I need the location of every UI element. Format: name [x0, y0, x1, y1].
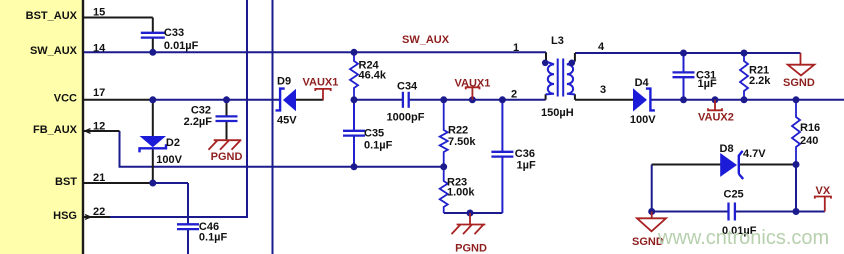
svg-text:D2: D2 [166, 137, 180, 149]
svg-text:240: 240 [800, 135, 818, 147]
svg-text:C34: C34 [397, 81, 418, 93]
svg-text:C25: C25 [724, 189, 744, 201]
svg-text:C36: C36 [515, 148, 535, 160]
svg-text:7.50k: 7.50k [448, 136, 476, 148]
svg-text:1.00k: 1.00k [447, 187, 475, 199]
svg-text:1µF: 1µF [517, 160, 536, 172]
svg-text:0.1µF: 0.1µF [199, 232, 228, 244]
svg-text:150µH: 150µH [541, 107, 574, 119]
svg-text:VX: VX [816, 185, 831, 197]
svg-text:D4: D4 [635, 77, 650, 89]
svg-text:L3: L3 [551, 35, 564, 47]
svg-text:PGND: PGND [211, 151, 243, 163]
svg-text:0.1µF: 0.1µF [364, 140, 393, 152]
svg-text:100V: 100V [156, 154, 182, 166]
svg-text:VAUX1: VAUX1 [303, 77, 339, 89]
svg-text:2: 2 [511, 89, 517, 101]
svg-text:2.2k: 2.2k [749, 75, 771, 87]
svg-text:0.01µF: 0.01µF [164, 40, 199, 52]
svg-text:2.2µF: 2.2µF [184, 116, 213, 128]
svg-text:VAUX2: VAUX2 [698, 112, 734, 124]
svg-text:22: 22 [93, 206, 105, 218]
svg-text:C33: C33 [164, 27, 184, 39]
svg-text:C32: C32 [191, 105, 211, 117]
svg-text:HSG: HSG [53, 210, 77, 222]
svg-text:15: 15 [93, 7, 105, 19]
svg-text:SGND: SGND [783, 77, 815, 89]
svg-text:SW_AUX: SW_AUX [402, 34, 450, 46]
svg-text:BST_AUX: BST_AUX [26, 10, 78, 22]
svg-text:46.4k: 46.4k [359, 70, 387, 82]
svg-text:VCC: VCC [54, 92, 77, 104]
svg-text:3: 3 [600, 84, 606, 96]
svg-text:D8: D8 [720, 143, 734, 155]
svg-text:1000pF: 1000pF [387, 112, 425, 124]
svg-text:45V: 45V [277, 115, 297, 127]
svg-text:14: 14 [93, 42, 106, 54]
svg-text:12: 12 [93, 121, 105, 133]
svg-text:SW_AUX: SW_AUX [30, 45, 78, 57]
svg-text:R22: R22 [448, 125, 468, 137]
svg-text:VAUX1: VAUX1 [455, 78, 491, 90]
svg-text:D9: D9 [277, 76, 291, 88]
svg-text:BST: BST [55, 176, 77, 188]
svg-text:4: 4 [598, 41, 605, 53]
svg-text:www.cntronics.com: www.cntronics.com [657, 227, 829, 249]
svg-text:21: 21 [93, 172, 105, 184]
svg-text:4.7V: 4.7V [743, 148, 766, 160]
svg-text:1µF: 1µF [698, 78, 717, 90]
svg-text:17: 17 [93, 87, 105, 99]
svg-text:1: 1 [513, 42, 519, 54]
svg-text:100V: 100V [630, 114, 656, 126]
svg-text:R16: R16 [800, 122, 820, 134]
svg-text:FB_AUX: FB_AUX [33, 124, 78, 136]
svg-text:PGND: PGND [455, 243, 487, 254]
svg-text:C35: C35 [364, 128, 384, 140]
